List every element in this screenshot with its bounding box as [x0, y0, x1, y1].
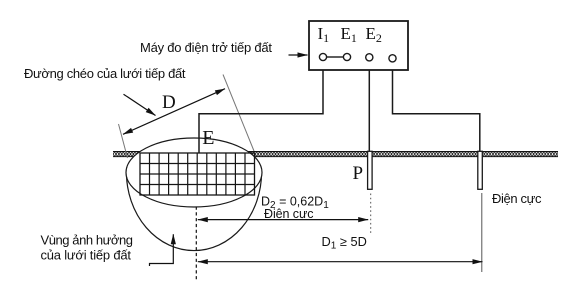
extension line left of D dimension — [119, 124, 128, 158]
dimension D1 line — [198, 261, 483, 263]
earthing grid mesh E — [140, 153, 255, 195]
far electrode — [478, 151, 483, 189]
leader arrow to D line — [124, 94, 156, 115]
svg-text:của lưới tiếp đất: của lưới tiếp đất — [41, 248, 132, 263]
svg-text:Đường chéo của lưới tiếp đất: Đường chéo của lưới tiếp đất — [24, 66, 186, 81]
wire from E2 terminal to electrode P — [368, 61, 370, 152]
terminal 4 — [389, 55, 396, 62]
leader elbow to influence zone — [150, 234, 174, 266]
influence hemisphere bowl — [126, 172, 261, 251]
arrow to meter box — [289, 54, 308, 56]
dashed centre line of grid — [195, 207, 197, 281]
dimension D2 line — [198, 219, 368, 221]
dimension D line — [123, 89, 225, 135]
dotted extension below electrode P — [370, 194, 372, 234]
wire from I1 terminal to grid — [199, 60, 323, 153]
ground surface hatched band — [113, 151, 558, 156]
wire from 4th terminal to far electrode — [393, 62, 480, 152]
svg-text:E: E — [202, 127, 214, 149]
grid equator oval — [126, 138, 262, 207]
svg-text:Vùng ảnh hưởng: Vùng ảnh hưởng — [41, 233, 134, 248]
terminal E1 — [343, 53, 350, 60]
meter box U1 — [309, 21, 408, 70]
electrode P — [368, 151, 373, 189]
extension line right of D dimension — [223, 75, 254, 152]
svg-text:D1 ≥ 5D: D1 ≥ 5D — [322, 234, 367, 252]
svg-text:Điện cực: Điện cực — [492, 191, 542, 206]
svg-text:Điện cực: Điện cực — [264, 207, 314, 221]
terminal I1 — [319, 53, 326, 60]
svg-text:Máy đo điện trở tiếp đất: Máy đo điện trở tiếp đất — [140, 40, 272, 55]
svg-text:P: P — [353, 163, 364, 184]
terminal E2 — [366, 54, 373, 61]
svg-text:D: D — [162, 92, 176, 113]
extension line below far electrode — [481, 193, 483, 272]
jumper wire I1-E1 — [327, 56, 343, 58]
